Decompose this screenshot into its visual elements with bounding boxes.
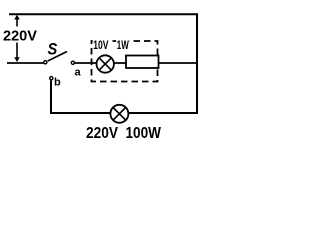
svg-text:10V: 10V <box>93 38 108 52</box>
svg-text:a: a <box>75 67 82 79</box>
svg-text:b: b <box>54 77 61 89</box>
svg-text:S: S <box>48 40 58 59</box>
svg-text:220V: 220V <box>3 28 37 45</box>
svg-text:220V: 220V <box>86 125 118 142</box>
svg-text:1W: 1W <box>117 38 129 52</box>
svg-text:100W: 100W <box>126 125 162 142</box>
